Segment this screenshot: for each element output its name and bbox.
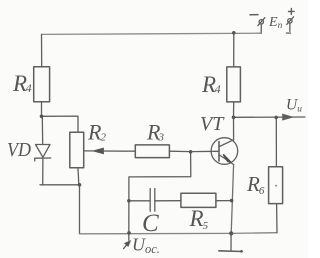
svg-text:Uос.: Uос.: [132, 235, 160, 257]
svg-text:R4: R4: [12, 71, 32, 96]
svg-text:Еп: Еп: [268, 15, 283, 31]
svg-text:Uи: Uи: [286, 97, 302, 115]
svg-text:R5: R5: [189, 206, 209, 232]
svg-text:R4: R4: [201, 72, 221, 97]
svg-text:VD: VD: [7, 139, 31, 161]
svg-text:C: C: [142, 210, 159, 237]
svg-text:R6: R6: [246, 172, 265, 197]
svg-text:VT: VT: [200, 113, 225, 135]
svg-text:R3: R3: [146, 120, 164, 145]
svg-text:R2: R2: [87, 120, 106, 145]
